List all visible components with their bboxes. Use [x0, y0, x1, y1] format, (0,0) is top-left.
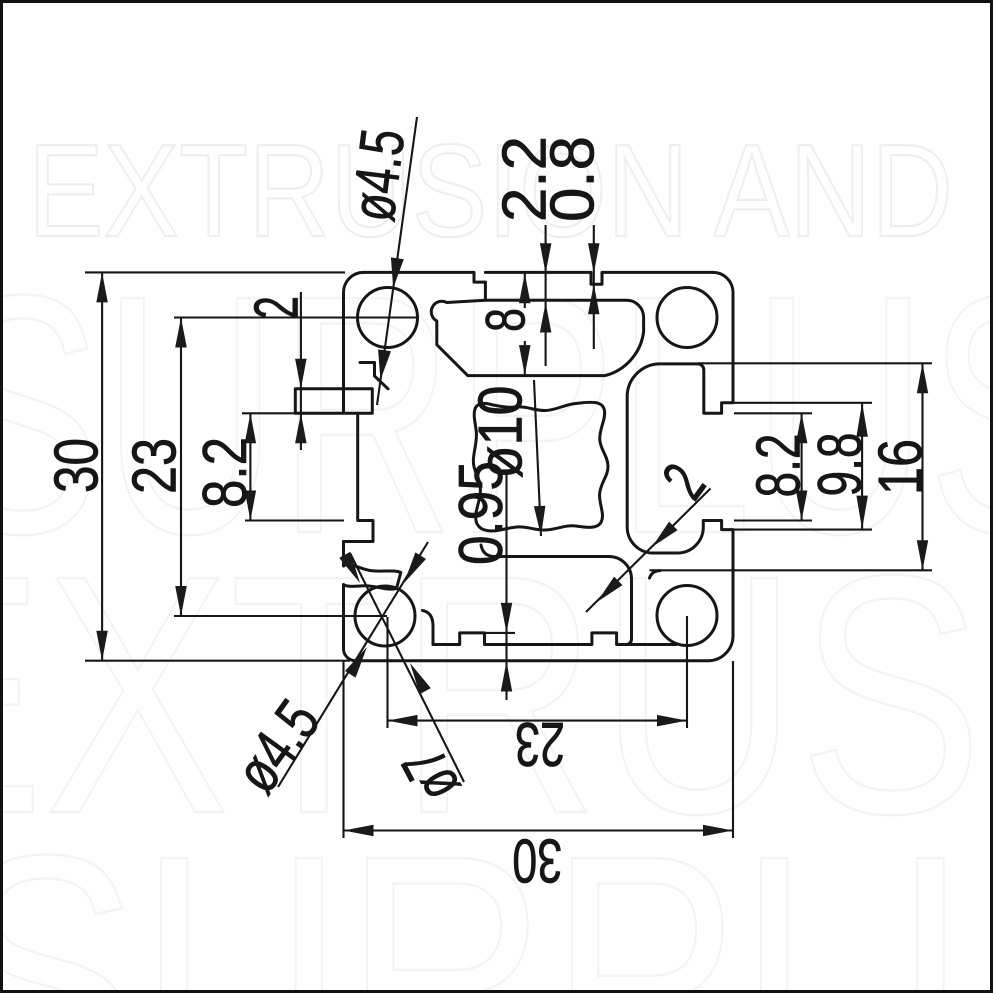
central cavity lower-right wall	[481, 545, 632, 645]
svg-text:23: 23	[515, 709, 565, 778]
corner hole bottom-right	[657, 586, 717, 646]
arrowheads 2 left (outside)	[295, 359, 307, 389]
svg-text:SURPLU: SURPLU	[0, 785, 993, 993]
svg-text:ø4.5: ø4.5	[339, 125, 419, 225]
dimension line 23 bottom	[388, 720, 688, 722]
central square hole (wavy)	[473, 402, 608, 531]
corner hole bottom-left	[355, 586, 415, 646]
arrowheads 23 bottom	[388, 715, 418, 727]
profile outer top edge left part with mold slit	[364, 272, 486, 282]
dimension line 30 bottom	[344, 829, 734, 831]
left tab (2mm)	[295, 292, 372, 413]
corner hole top-right	[657, 288, 717, 348]
dimension line 30 left	[101, 272, 103, 660]
svg-text:30: 30	[512, 826, 562, 895]
dimension line 8.2 left	[249, 413, 251, 520]
arrowheads 9.8 right	[856, 403, 868, 437]
bottom-right void top edge hook	[650, 571, 661, 578]
profile top-right corner arc	[713, 272, 733, 292]
left notch block	[344, 413, 374, 541]
left face lower	[342, 542, 345, 649]
right pocket top edge	[627, 364, 733, 661]
leader dia4.5 top-left hole	[377, 117, 417, 405]
dimension line 9.8 right	[861, 403, 863, 530]
profile outer top edge mid with 0.8 notch	[485, 272, 713, 284]
arrowheads 8.2 left	[245, 413, 256, 443]
arrowheads 8 top	[519, 273, 531, 303]
dimension line 8.2 right	[801, 413, 803, 520]
svg-text:8: 8	[474, 308, 537, 332]
arrowheads 8.2 right	[796, 413, 808, 443]
svg-text:9.8: 9.8	[806, 433, 875, 497]
dimension line 23 left	[180, 318, 182, 617]
arrowheads leader dia4.5 top	[391, 257, 404, 288]
svg-text:0.95: 0.95	[447, 461, 516, 565]
leader dia7 bottom-left hole	[350, 553, 464, 782]
top cavity (8mm slot)	[431, 282, 643, 376]
arrowhead dia10	[534, 506, 546, 536]
profile bottom edge	[344, 585, 709, 661]
profile right face upper	[698, 292, 733, 413]
dimension line dia10	[534, 380, 541, 536]
corner hole top-left	[358, 288, 418, 348]
arrowheads leader 2 right	[652, 522, 678, 547]
leader wall thickness 2	[586, 489, 711, 613]
svg-text:8.2: 8.2	[745, 434, 814, 498]
arrowheads 0.8 (outside)	[588, 243, 600, 273]
extension lines right side	[734, 412, 812, 414]
arrowheads 16 right	[917, 363, 928, 393]
arrowheads 0.95 (outside)	[501, 603, 512, 633]
svg-text:0.8: 0.8	[539, 136, 608, 222]
dimension line 2 left	[300, 292, 302, 450]
extension + dimension lines top	[524, 273, 526, 375]
arrowheads leader dia7	[410, 663, 431, 694]
dimension line 0.95	[505, 470, 507, 700]
arrowheads 30 bottom	[344, 825, 374, 836]
left face broken-lip wavy edge	[344, 565, 401, 590]
bottom inner wall with notches	[433, 633, 676, 645]
svg-text:2: 2	[243, 296, 312, 319]
arrowheads leader dia4.5 bottom-left	[404, 552, 426, 583]
bottom inner wall left return arc	[423, 611, 434, 645]
arrowheads 23 left	[175, 318, 187, 348]
extension lines bottom	[342, 661, 344, 838]
small step under top-left hole	[360, 363, 388, 389]
svg-text:16: 16	[867, 439, 936, 495]
dimension line 16 right	[921, 363, 923, 570]
leader dia4.5 bottom-left hole	[278, 542, 428, 787]
svg-text:30: 30	[43, 438, 112, 493]
svg-text:8.2: 8.2	[191, 437, 260, 508]
svg-text:23: 23	[121, 438, 190, 494]
extension lines left side	[85, 271, 345, 273]
profile top-left corner arc	[344, 272, 364, 292]
arrowheads 2.2 (outside)	[540, 243, 552, 273]
arrowheads 30 left	[96, 272, 108, 302]
